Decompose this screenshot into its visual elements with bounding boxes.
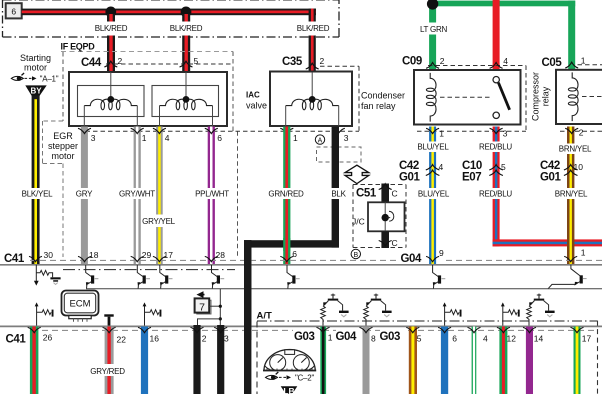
wire BLK vertical from C35-3 xyxy=(332,127,339,248)
wire GRN/RED (C41-26) xyxy=(30,327,39,394)
svg-text:30: 30 xyxy=(44,250,54,260)
wire BRN/YEL (G03-5) xyxy=(409,327,417,394)
svg-text:"C–2": "C–2" xyxy=(295,374,315,383)
ECM internal dash-dot line xyxy=(63,269,235,271)
svg-text:BLK: BLK xyxy=(331,190,346,199)
label BLK/RED 3 xyxy=(296,22,330,36)
pin crossing hump C09-4 xyxy=(490,63,503,69)
wire GRY/RED (C41-22) xyxy=(105,327,114,394)
pin crossing hump C09-3 xyxy=(490,128,503,133)
svg-text:G01: G01 xyxy=(399,171,421,183)
svg-text:18: 18 xyxy=(89,250,99,260)
svg-text:6: 6 xyxy=(452,334,457,344)
J/C internal wire and dot xyxy=(384,202,386,231)
resistor R-6 xyxy=(444,306,446,327)
shield diamond symbol xyxy=(345,165,369,183)
key symbol (eye) bottom xyxy=(266,375,278,379)
svg-text:G04: G04 xyxy=(336,331,358,343)
svg-text:5: 5 xyxy=(501,162,506,172)
C09 dashed box xyxy=(417,66,526,132)
node 7 box with arrow xyxy=(198,293,204,297)
ECM box top edge xyxy=(0,264,602,266)
EGR coil 1 inner box xyxy=(78,86,145,117)
svg-text:BLK/RED: BLK/RED xyxy=(95,24,128,33)
label GRN/RED xyxy=(267,188,305,199)
svg-text:28: 28 xyxy=(216,250,226,260)
transistor Q29 xyxy=(137,265,143,277)
condenser fan relay box xyxy=(414,70,521,125)
wire BRN/YEL (C05-2 to G04-1) xyxy=(567,127,574,265)
wire PPL/WHT (C44-6 to C41-28) xyxy=(208,127,215,265)
pin crossing hump C44-1 xyxy=(131,128,144,133)
svg-text:10: 10 xyxy=(574,162,584,172)
svg-text:Starting: Starting xyxy=(20,53,51,63)
C41/G04 connector dashed line xyxy=(30,259,602,261)
svg-text:2: 2 xyxy=(118,56,123,66)
label LT GRN xyxy=(419,23,448,35)
svg-text:6: 6 xyxy=(11,6,16,16)
svg-text:BY: BY xyxy=(30,87,42,96)
label BLK/YEL xyxy=(20,188,54,199)
svg-text:C10: C10 xyxy=(462,160,482,172)
EGR stepper motor component box xyxy=(69,72,227,126)
svg-text:C05: C05 xyxy=(542,57,563,69)
pass-through chevrons BLU/YEL xyxy=(426,165,440,170)
transistor Q28 xyxy=(212,265,218,277)
wire BLK (C41-2) xyxy=(193,325,200,394)
wire GRY (C44-3 to C41-18) xyxy=(81,127,88,265)
label IF EQPD xyxy=(59,41,101,51)
pin crossing hump C09-1 xyxy=(426,128,439,133)
C09 switch blade xyxy=(498,83,509,110)
C35 dashed box right edge xyxy=(358,66,360,131)
pin crossing hump C44-2 xyxy=(104,61,117,67)
pin crossing hump C35-3 xyxy=(332,128,345,133)
svg-text:2: 2 xyxy=(440,56,445,66)
LB power shield symbol xyxy=(281,386,298,394)
svg-text:G01: G01 xyxy=(540,171,562,183)
svg-text:B: B xyxy=(353,252,358,259)
pin crossing hump C51 upper xyxy=(379,184,392,190)
svg-text:1: 1 xyxy=(142,133,147,143)
pin crossing hump C05-2 xyxy=(565,128,578,133)
pin26 internal pull-up resistor xyxy=(36,306,38,327)
svg-text:G03: G03 xyxy=(294,331,315,343)
wire BLK/RED stub to C44 pin 2 xyxy=(107,14,115,72)
svg-text:17: 17 xyxy=(582,334,592,344)
pin crossing hump C44-6 xyxy=(205,128,218,133)
C05 mechanical link dashed xyxy=(582,96,602,98)
pin16 internal pull-up resistor xyxy=(144,306,146,327)
pin22 internal T-termination xyxy=(104,314,113,316)
svg-text:3: 3 xyxy=(503,128,508,138)
wire BLK horizontal elbow xyxy=(244,240,339,247)
coil 1 winding xyxy=(84,99,137,110)
label BLU/YEL upper xyxy=(418,142,448,153)
svg-text:6: 6 xyxy=(217,133,222,143)
svg-text:C42: C42 xyxy=(540,160,560,172)
label BLU/YEL lower xyxy=(418,188,449,199)
C09 switch contacts xyxy=(493,77,499,83)
svg-text:C42: C42 xyxy=(399,160,419,172)
ignition key symbol (eye) xyxy=(11,76,23,80)
label RED/BLU upper xyxy=(477,142,514,153)
label BRN/YEL lower xyxy=(552,188,590,199)
wire GRN/YEL (pin 17) xyxy=(574,327,581,394)
svg-text:ECM: ECM xyxy=(69,299,90,310)
svg-text:A: A xyxy=(318,138,323,145)
label EGR stepper motor xyxy=(45,131,81,161)
wire GRN/RED (C35-1 to G04-6) xyxy=(283,127,290,265)
svg-text:C09: C09 xyxy=(402,55,422,67)
connector C44 top dashed line xyxy=(106,63,233,65)
resistor R-12 xyxy=(502,306,504,327)
wire BLK/RED vertical to C35 pin 2 xyxy=(309,9,316,72)
wire BLK/RED stub to C44 pin 5 xyxy=(182,14,190,72)
svg-text:12: 12 xyxy=(507,334,517,344)
wire RED/BLU (C09-3) vertical xyxy=(493,127,500,247)
coil 2 junction dot xyxy=(183,96,190,103)
pin crossing hump C09-2 xyxy=(426,63,439,69)
transistor Q-14 with resistor+ground xyxy=(538,294,540,299)
svg-text:motor: motor xyxy=(24,63,47,73)
svg-text:"A–1": "A–1" xyxy=(40,75,59,84)
pin crossing hump C44-4 xyxy=(153,128,166,133)
svg-text:C41: C41 xyxy=(6,333,27,345)
node 7 wiring to pins 2/3 xyxy=(208,305,220,307)
svg-text:G04: G04 xyxy=(401,253,423,265)
svg-text:2: 2 xyxy=(320,56,325,66)
pass-through chevrons BRN/YEL xyxy=(564,165,578,170)
svg-text:BLK/YEL: BLK/YEL xyxy=(22,190,54,199)
svg-text:1: 1 xyxy=(293,133,298,143)
svg-text:4: 4 xyxy=(483,334,488,344)
svg-text:9: 9 xyxy=(439,248,444,258)
C05 relay coil xyxy=(568,72,578,121)
svg-text:1: 1 xyxy=(328,333,333,343)
C35 dashed line xyxy=(320,65,359,67)
svg-text:22: 22 xyxy=(117,335,127,345)
svg-text:GRN/RED: GRN/RED xyxy=(268,190,304,199)
svg-text:GRY/RED: GRY/RED xyxy=(90,367,125,376)
transistor Q-G03-1 with resistor+ground xyxy=(332,294,334,299)
IAC valve component box xyxy=(270,72,352,127)
svg-text:C44: C44 xyxy=(81,57,102,69)
wire GRN/WHT thin (pin 4) xyxy=(472,327,477,394)
svg-text:GRY/YEL: GRY/YEL xyxy=(142,217,176,226)
transistor Q1 (BRN/YEL, offset bar) xyxy=(571,265,580,276)
svg-text:LT GRN: LT GRN xyxy=(420,25,448,34)
svg-text:J/C: J/C xyxy=(352,216,365,226)
svg-text:EGR: EGR xyxy=(53,131,73,141)
humps bottom row xyxy=(317,327,330,332)
svg-text:C: C xyxy=(392,238,398,248)
svg-text:A/T: A/T xyxy=(257,310,273,321)
wire LT GRN horizontal feed xyxy=(429,1,575,7)
coil 2 winding xyxy=(160,99,213,110)
svg-text:motor: motor xyxy=(51,151,74,161)
svg-text:BLU/YEL: BLU/YEL xyxy=(417,143,449,152)
pin30 internal: line, resistor to ground, down arrow xyxy=(35,265,37,282)
IAC coil lead from pin 2 xyxy=(311,72,313,97)
IF EQPD equipment dashed box right edge xyxy=(232,52,234,132)
svg-text:Condenser: Condenser xyxy=(361,90,405,100)
wire LT GRN vertical to C09-2 xyxy=(429,0,436,70)
coil 1 leads down to pins 3 and 1 xyxy=(83,106,85,126)
svg-text:BLK/RED: BLK/RED xyxy=(170,24,203,33)
wire GRN vertical to C05-1 xyxy=(568,1,575,70)
gauge cluster icon xyxy=(264,350,315,371)
C05 dashed box top xyxy=(560,65,602,132)
label GRY/YEL xyxy=(141,215,176,228)
pin crossing hump C05-1 xyxy=(565,62,578,68)
svg-text:BLU/YEL: BLU/YEL xyxy=(418,190,450,199)
wire RED/BLU horizontal exit right xyxy=(493,239,602,246)
harness boundary dash-dot box top-left xyxy=(2,0,4,37)
junction dot on bus at C44 pin 2 xyxy=(105,6,116,17)
svg-text:BRN/YEL: BRN/YEL xyxy=(555,190,588,199)
svg-text:BRN/YEL: BRN/YEL xyxy=(559,145,592,154)
coil 1 junction dot xyxy=(107,96,114,103)
svg-text:RED/BLU: RED/BLU xyxy=(479,143,512,152)
pin crossing hump C35-2 xyxy=(306,63,319,69)
svg-text:5: 5 xyxy=(417,334,422,344)
transistor Q18 xyxy=(86,265,92,277)
label BRN/YEL upper xyxy=(556,144,594,155)
connector C51 label xyxy=(355,186,381,198)
A/T dash-dot top border xyxy=(257,320,598,322)
humps row C41-1 xyxy=(29,256,42,261)
pass-through chevrons RED/BLU xyxy=(489,165,503,170)
svg-text:26: 26 xyxy=(43,333,53,343)
svg-text:C: C xyxy=(392,189,398,199)
circled A node xyxy=(315,135,324,144)
svg-text:6: 6 xyxy=(292,249,297,259)
svg-text:GRY: GRY xyxy=(76,190,93,199)
wire BLU (pin 6) xyxy=(441,327,448,394)
wire BLK stub through C51 (upper) xyxy=(381,184,389,204)
C09 relay coil xyxy=(426,73,436,122)
svg-text:1: 1 xyxy=(581,248,586,258)
junction dot on bus at C44 pin 5 xyxy=(181,6,192,17)
pin crossing hump C51 lower xyxy=(379,241,392,246)
transistor Q17 xyxy=(160,265,166,277)
label GRY/WHT xyxy=(119,188,155,199)
wire BLK/YEL from starting motor to C41-30 xyxy=(32,96,40,265)
wire GRN/RED redraw over elbow xyxy=(283,238,290,251)
C51 dashed box xyxy=(353,185,406,248)
wire BLK vertical left leg down xyxy=(244,240,251,340)
svg-text:5: 5 xyxy=(194,56,199,66)
svg-text:IAC: IAC xyxy=(246,91,260,100)
EGR boundary right vertical dashed xyxy=(237,131,239,258)
wire GRY (G04-8) xyxy=(363,327,370,394)
IF EQPD equipment dashed box top xyxy=(61,51,233,53)
svg-text:1: 1 xyxy=(581,55,586,65)
wire GRN w/BLK (G03-1) xyxy=(320,327,326,394)
wire BLU/YEL (C09-1 to G04-9) xyxy=(429,127,436,265)
pin crossing hump C44-3 xyxy=(78,128,91,133)
svg-text:valve: valve xyxy=(246,100,267,110)
EGR coil 2 inner box xyxy=(152,86,219,117)
transistor Q6 (GRN/RED) xyxy=(287,265,293,277)
dashed arrow to C-2 xyxy=(279,376,288,378)
ECM box bottom edge xyxy=(0,325,602,327)
label PPL/WHT xyxy=(194,188,230,199)
dashed arrow to A-1 xyxy=(25,77,34,79)
wire PPL (pin 14) xyxy=(526,327,533,394)
wire GRY/WHT (C44-1 to C41-29) xyxy=(134,127,141,265)
svg-text:GRY/WHT: GRY/WHT xyxy=(119,190,155,199)
label RED/BLU lower xyxy=(477,188,514,199)
C41 row2 connector dashed line xyxy=(32,329,597,331)
svg-text:LB: LB xyxy=(283,386,294,394)
ECM module icon xyxy=(62,291,99,316)
J/C junction box xyxy=(368,202,405,231)
svg-text:G03: G03 xyxy=(380,331,401,343)
label GRY xyxy=(75,188,93,199)
circled B node xyxy=(351,249,360,258)
humps row C41-2 xyxy=(28,327,41,332)
EGR stepper motor dashed boundary left xyxy=(62,52,64,121)
wire BLU (C41-16) xyxy=(141,327,148,394)
coil 2 leads down to pins 4 and 6 xyxy=(159,106,161,126)
J/C hook xyxy=(386,211,394,221)
svg-text:16: 16 xyxy=(150,334,160,344)
svg-text:Compressor: Compressor xyxy=(531,72,541,121)
svg-text:C51: C51 xyxy=(356,187,377,199)
C44 bottom connector dashed line xyxy=(63,130,359,132)
svg-text:C35: C35 xyxy=(282,56,303,68)
svg-text:7: 7 xyxy=(199,301,205,313)
wire GRY/YEL (C44-4 to C41-17) xyxy=(156,127,163,265)
A/T left dashed border xyxy=(256,322,258,394)
svg-text:14: 14 xyxy=(534,334,544,344)
svg-text:8: 8 xyxy=(371,334,376,344)
svg-text:C41: C41 xyxy=(4,253,25,265)
wire BLK (C41-3) xyxy=(217,325,224,394)
svg-text:BLK/RED: BLK/RED xyxy=(297,24,330,33)
pin crossing hump C35-1 xyxy=(280,128,293,133)
IAC coil winding xyxy=(286,99,339,110)
IAC coil junction dot xyxy=(309,96,316,103)
label GRY/RED xyxy=(86,364,129,376)
svg-text:4: 4 xyxy=(503,56,508,66)
svg-text:stepper: stepper xyxy=(48,141,78,151)
svg-text:29: 29 xyxy=(142,250,152,260)
wire RED vertical to C09-4 xyxy=(493,0,500,70)
A/T right dashed border xyxy=(597,321,599,394)
transistor Q-G04-8 with resistor+ground xyxy=(375,294,377,299)
shield dashed box below circled A xyxy=(317,147,362,162)
svg-text:IF EQPD: IF EQPD xyxy=(61,42,96,52)
compressor relay box xyxy=(556,70,602,124)
svg-text:2: 2 xyxy=(579,127,584,137)
svg-text:3: 3 xyxy=(91,133,96,143)
transistor Q9 (BLU/YEL) xyxy=(433,265,439,277)
wire BLK stub through C51 (lower) xyxy=(381,231,389,248)
coil 2 lead from pin 5 xyxy=(185,72,187,97)
C09 mechanical link dashed xyxy=(440,96,492,98)
svg-text:17: 17 xyxy=(164,250,174,260)
svg-text:E07: E07 xyxy=(462,171,481,183)
label BLK/RED 1 xyxy=(94,22,128,36)
ECM emitter bus line xyxy=(86,288,602,290)
IAC coil leads to pins 1 and 3 xyxy=(285,106,287,126)
svg-text:1: 1 xyxy=(439,128,444,138)
svg-text:3: 3 xyxy=(344,133,349,143)
junction dot LT GRN xyxy=(427,0,438,10)
node 6 (junction box) xyxy=(6,3,22,18)
svg-text:3: 3 xyxy=(224,334,229,344)
BY power shield symbol xyxy=(25,85,46,95)
svg-text:RED/BLU: RED/BLU xyxy=(479,190,512,199)
coil 1 lead from pin 2 xyxy=(110,72,112,97)
svg-text:4: 4 xyxy=(165,133,170,143)
svg-text:2: 2 xyxy=(202,334,207,344)
wire BLK elbow leg redraw over lines xyxy=(244,240,251,394)
svg-text:PPL/WHT: PPL/WHT xyxy=(195,190,229,199)
svg-text:relay: relay xyxy=(541,86,551,106)
svg-text:fan relay: fan relay xyxy=(361,101,396,111)
wire GRN/RED (pin 12) xyxy=(499,327,507,394)
wire BLK/RED bus horizontal xyxy=(22,9,316,16)
label BLK/RED 2 xyxy=(169,22,203,36)
pin crossing hump C44-5 xyxy=(180,61,193,67)
label BLK xyxy=(330,188,347,199)
